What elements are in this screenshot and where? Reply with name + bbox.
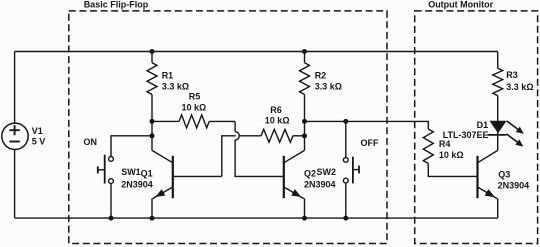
dashed box Basic Flip-Flop <box>69 11 387 244</box>
label D1 LTL-307EE <box>443 120 489 140</box>
label R4 10 kOhm <box>439 139 464 160</box>
svg-text:Q3: Q3 <box>498 169 510 179</box>
label V1 5 V <box>32 126 46 146</box>
svg-text:R3: R3 <box>506 70 518 80</box>
svg-text:10 kΩ: 10 kΩ <box>182 103 207 113</box>
resistor R4 <box>423 129 477 176</box>
svg-text:3.3 kΩ: 3.3 kΩ <box>162 81 189 91</box>
node Q2 emitter <box>302 216 307 221</box>
svg-text:D1: D1 <box>477 120 489 130</box>
label R2 3.3 kOhm <box>315 71 342 92</box>
wire left rail upper <box>14 52 16 124</box>
svg-text:OFF: OFF <box>361 138 379 148</box>
svg-text:R2: R2 <box>315 71 327 81</box>
svg-text:Output Monitor: Output Monitor <box>428 0 493 9</box>
resistor R2 <box>300 52 310 151</box>
svg-text:2N3904: 2N3904 <box>121 179 153 189</box>
svg-text:3.3 kΩ: 3.3 kΩ <box>315 81 342 91</box>
label R5 10 kOhm <box>182 92 207 113</box>
node R1 top <box>150 49 155 54</box>
node R1 bottom / R5 tee <box>150 119 155 124</box>
node Q1 emitter <box>150 216 155 221</box>
svg-text:2N3904: 2N3904 <box>498 180 530 190</box>
wire hop arc <box>235 132 239 140</box>
node SW1 bottom <box>109 216 114 221</box>
resistor R6 <box>261 129 305 142</box>
label R6 10 kOhm <box>265 105 290 126</box>
wire flip-flop output to monitor <box>346 121 429 129</box>
svg-text:Q2: Q2 <box>304 169 316 179</box>
svg-text:V1: V1 <box>32 126 43 136</box>
svg-text:LTL-307EE: LTL-307EE <box>443 130 489 140</box>
wire bottom rail <box>15 217 498 219</box>
LED D1 <box>488 121 524 150</box>
node R2 bottom / OFF tee <box>302 119 307 124</box>
svg-text:10 kΩ: 10 kΩ <box>265 116 290 126</box>
wire R5 to Q2 base with hop <box>235 121 284 176</box>
label Q3 2N3904 <box>498 169 530 190</box>
svg-text:Basic Flip-Flop: Basic Flip-Flop <box>84 0 149 9</box>
transistor Q1 <box>152 150 222 218</box>
wire top rail <box>15 51 498 53</box>
resistor R3 <box>493 52 503 122</box>
node R2 top <box>302 49 307 54</box>
switch SW2 (OFF) <box>305 121 360 218</box>
node SW1 tee <box>150 133 155 138</box>
label R1 3.3 kOhm <box>162 71 189 92</box>
resistor R5 <box>152 115 235 128</box>
label R3 3.3 kOhm <box>506 70 533 92</box>
svg-text:ON: ON <box>84 137 98 147</box>
wire R6 row (Q1 base to R6) <box>222 136 261 177</box>
wire left rail lower <box>14 150 16 219</box>
svg-text:R1: R1 <box>162 71 174 81</box>
voltage source V1 <box>2 123 28 149</box>
node OFF top tee <box>343 119 348 124</box>
svg-text:2N3904: 2N3904 <box>304 179 336 189</box>
dashed box Output Monitor <box>415 11 538 244</box>
node R6 tee <box>302 133 307 138</box>
svg-text:R6: R6 <box>270 105 282 115</box>
transistor Q3 <box>478 150 498 218</box>
resistor R1 <box>147 52 157 151</box>
svg-text:SW1: SW1 <box>121 167 141 177</box>
node OFF bottom <box>343 216 348 221</box>
svg-text:R5: R5 <box>189 92 201 102</box>
svg-text:SW2: SW2 <box>317 167 337 177</box>
transistor Q2 <box>284 150 305 218</box>
svg-text:10 kΩ: 10 kΩ <box>439 150 464 160</box>
svg-text:Q1: Q1 <box>141 169 153 179</box>
label SW1Q1 2N3904 <box>121 167 153 189</box>
label Q2SW2 2N3904 <box>304 167 336 190</box>
svg-text:5 V: 5 V <box>32 136 46 146</box>
switch SW1 (ON) <box>98 136 152 218</box>
svg-text:R4: R4 <box>439 139 451 149</box>
svg-text:3.3 kΩ: 3.3 kΩ <box>506 82 533 92</box>
